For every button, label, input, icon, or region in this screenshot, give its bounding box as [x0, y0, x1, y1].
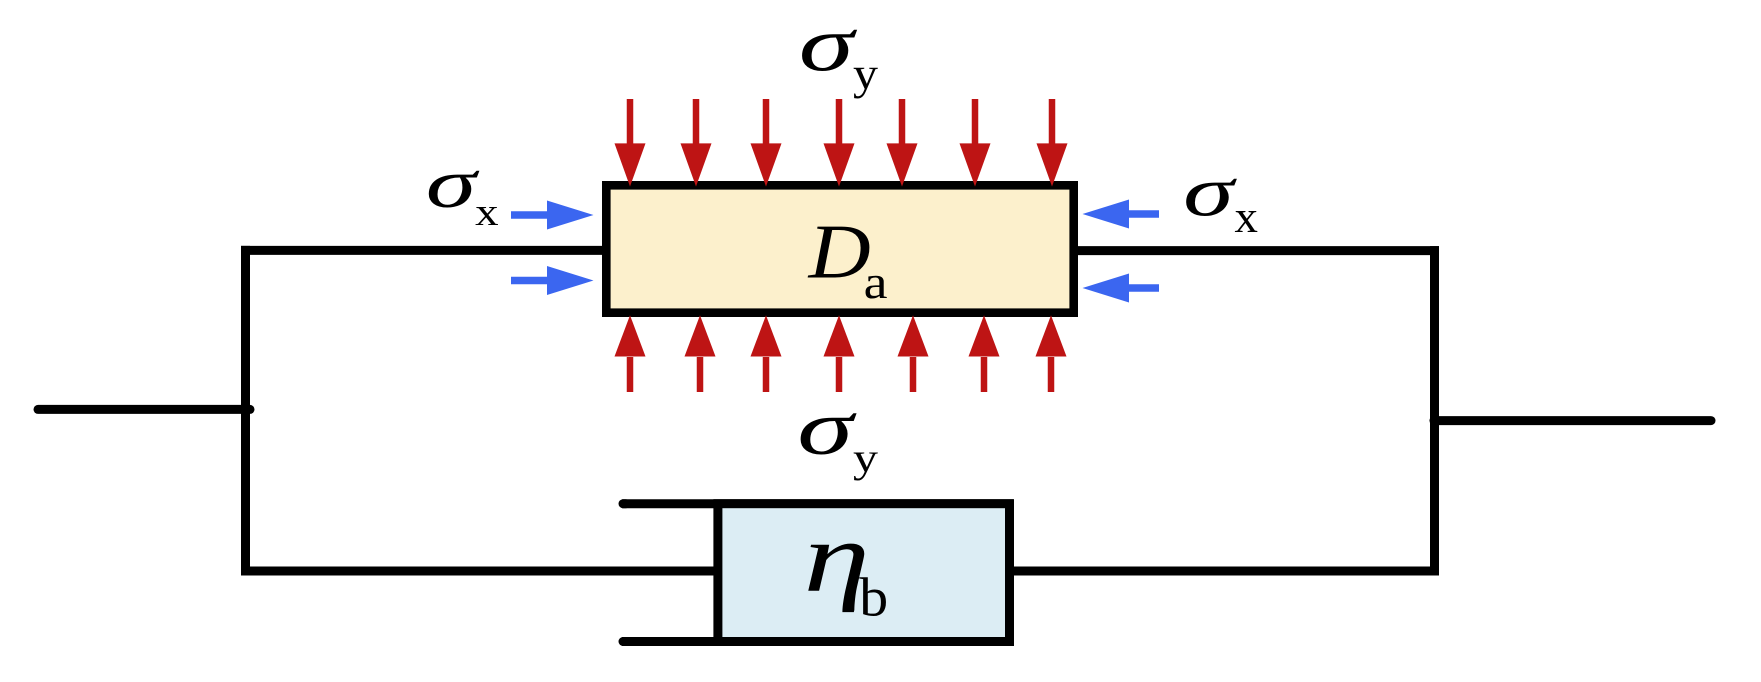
wire: left vertical branch junction	[241, 246, 250, 576]
stress arrow sigma_y top #7 (down)	[1049, 99, 1056, 150]
svg-text:σ: σ	[1183, 152, 1238, 231]
stress arrow sigma_y top #3 (down)	[763, 99, 770, 150]
svg-text:σ: σ	[797, 384, 856, 471]
dashpot cylinder bottom wall left cap	[623, 637, 626, 646]
stress arrow sigma_y top #1 (down)	[627, 99, 634, 150]
stress arrow sigma_y bottom #6 (up)	[981, 357, 988, 392]
dashpot eta_b piston body	[718, 504, 1010, 642]
elastic element Da (loaded plate)	[606, 185, 1073, 312]
wire: bottom branch left segment (dashpot piston rod)	[241, 567, 719, 576]
svg-text:D: D	[808, 208, 871, 294]
stress arrow sigma_y bottom #5 (up)	[910, 357, 917, 392]
wire: top branch left segment	[241, 246, 606, 255]
stress arrow sigma_y bottom #1 (up)	[627, 357, 634, 392]
dashpot cylinder bottom wall	[622, 637, 1014, 646]
stress arrow sigma_y bottom #3 (up)	[763, 357, 770, 392]
stress arrow sigma_x left lower (right)	[511, 277, 549, 285]
stress arrow sigma_y bottom #2 (up)	[697, 357, 704, 392]
wire: top branch right segment	[1074, 246, 1439, 255]
stress arrow sigma_y top #2 (down)	[693, 99, 700, 150]
stress arrow sigma_y top #4 (down)	[836, 99, 843, 150]
svg-text:b: b	[859, 568, 888, 628]
wire: left lead	[38, 405, 250, 414]
wire: right vertical branch junction	[1430, 246, 1439, 575]
svg-text:σ: σ	[426, 145, 480, 222]
stress arrow sigma_y top #5 (down)	[899, 99, 906, 150]
svg-text:σ: σ	[799, 0, 858, 87]
stress arrow sigma_y bottom #4 (up)	[836, 357, 843, 392]
stress arrow sigma_y bottom #7 (up)	[1048, 357, 1055, 392]
stress arrow sigma_x right upper (left)	[1127, 210, 1159, 218]
dashpot cylinder top wall left cap	[623, 499, 626, 508]
stress arrow sigma_y top #6 (down)	[972, 99, 979, 150]
svg-text:a: a	[864, 257, 888, 310]
svg-text:x: x	[1235, 192, 1258, 242]
wire: right lead	[1434, 416, 1711, 425]
svg-text:y: y	[853, 49, 878, 99]
stress arrow sigma_x left upper (right)	[511, 211, 549, 219]
dashpot cylinder top wall	[622, 499, 1014, 508]
stress arrow sigma_x right lower (left)	[1127, 284, 1159, 292]
wire: bottom branch right segment (dashpot rod)	[1012, 567, 1439, 576]
svg-text:y: y	[853, 435, 878, 481]
svg-text:x: x	[475, 190, 499, 234]
